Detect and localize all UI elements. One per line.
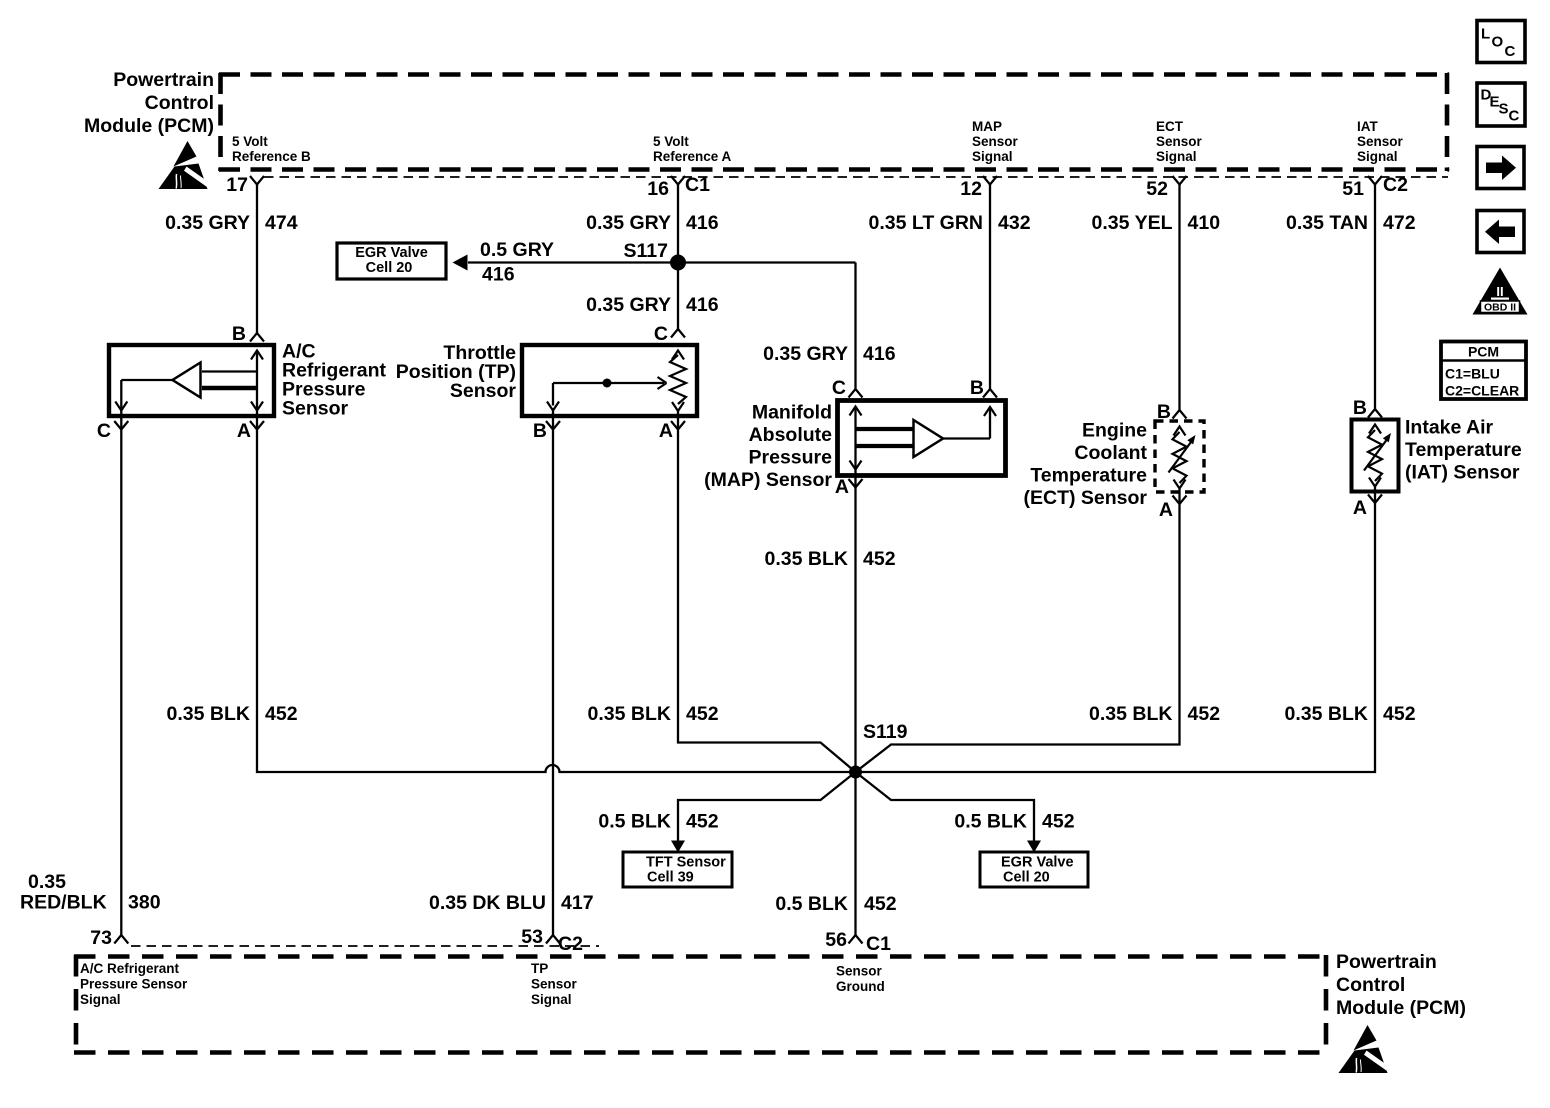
- svg-text:0.35 YEL: 0.35 YEL: [1092, 212, 1173, 234]
- svg-text:C2=CLEAR: C2=CLEAR: [1445, 383, 1519, 399]
- svg-text:C1=BLU: C1=BLU: [1445, 366, 1500, 382]
- svg-text:452: 452: [686, 811, 719, 833]
- svg-text:452: 452: [864, 893, 897, 915]
- svg-text:0.35 BLK: 0.35 BLK: [167, 703, 250, 725]
- svg-text:0.5 BLK: 0.5 BLK: [775, 893, 848, 915]
- svg-text:452: 452: [265, 703, 298, 725]
- svg-text:S: S: [1499, 101, 1509, 118]
- svg-text:0.5 GRY: 0.5 GRY: [480, 239, 554, 261]
- svg-text:Cell 20: Cell 20: [366, 260, 413, 276]
- svg-text:B: B: [533, 420, 547, 442]
- svg-text:0.35 GRY: 0.35 GRY: [763, 343, 848, 365]
- svg-text:Module (PCM): Module (PCM): [84, 115, 214, 137]
- svg-text:O: O: [1492, 34, 1504, 51]
- svg-text:A: A: [835, 476, 849, 498]
- svg-text:Engine: Engine: [1082, 420, 1147, 442]
- svg-text:Intake Air: Intake Air: [1405, 417, 1494, 439]
- svg-text:EGR Valve: EGR Valve: [1001, 855, 1074, 871]
- svg-text:B: B: [1157, 401, 1171, 423]
- svg-text:417: 417: [561, 892, 594, 914]
- svg-text:472: 472: [1383, 212, 1416, 234]
- svg-text:A: A: [1159, 499, 1173, 521]
- svg-text:C: C: [97, 420, 111, 442]
- svg-text:Control: Control: [1336, 974, 1405, 996]
- svg-text:Temperature: Temperature: [1405, 439, 1522, 461]
- svg-text:B: B: [232, 323, 246, 345]
- svg-text:452: 452: [863, 548, 896, 570]
- svg-text:C: C: [654, 323, 668, 345]
- svg-text:Pressure: Pressure: [749, 447, 833, 469]
- svg-text:A: A: [1353, 497, 1367, 519]
- svg-text:Module (PCM): Module (PCM): [1336, 997, 1466, 1019]
- svg-text:Cell 20: Cell 20: [1003, 870, 1050, 886]
- svg-text:Sensor: Sensor: [450, 380, 517, 402]
- svg-text:Sensor: Sensor: [836, 964, 883, 979]
- svg-text:(ECT) Sensor: (ECT) Sensor: [1023, 487, 1147, 509]
- svg-text:C2: C2: [558, 933, 583, 955]
- svg-text:416: 416: [482, 264, 515, 286]
- svg-text:ECT: ECT: [1156, 119, 1184, 134]
- svg-text:Pressure Sensor: Pressure Sensor: [80, 977, 188, 992]
- svg-text:MAP: MAP: [972, 119, 1002, 134]
- svg-text:Sensor: Sensor: [282, 398, 349, 420]
- svg-text:5 Volt: 5 Volt: [653, 134, 689, 149]
- svg-text:0.35 DK BLU: 0.35 DK BLU: [429, 892, 546, 914]
- svg-text:0.35: 0.35: [28, 871, 66, 893]
- svg-text:12: 12: [960, 178, 982, 200]
- svg-text:Reference A: Reference A: [653, 149, 732, 164]
- svg-text:0.35 GRY: 0.35 GRY: [586, 294, 671, 316]
- svg-text:II: II: [1496, 284, 1503, 299]
- svg-text:Cell 39: Cell 39: [647, 870, 694, 886]
- svg-text:Absolute: Absolute: [749, 424, 833, 446]
- svg-text:A: A: [659, 420, 673, 442]
- svg-text:Control: Control: [145, 92, 214, 114]
- svg-text:Powertrain: Powertrain: [113, 69, 214, 91]
- svg-text:Reference B: Reference B: [232, 149, 311, 164]
- svg-text:RED/BLK: RED/BLK: [20, 892, 107, 914]
- svg-text:17: 17: [226, 174, 248, 196]
- svg-text:0.35 GRY: 0.35 GRY: [586, 212, 671, 234]
- svg-text:16: 16: [647, 178, 669, 200]
- svg-text:Signal: Signal: [1357, 149, 1398, 164]
- svg-text:Sensor: Sensor: [531, 977, 578, 992]
- svg-text:0.35 LT GRN: 0.35 LT GRN: [869, 212, 984, 234]
- svg-text:73: 73: [90, 927, 112, 949]
- svg-text:C1: C1: [685, 174, 710, 196]
- svg-text:452: 452: [1188, 703, 1221, 725]
- svg-text:52: 52: [1146, 178, 1168, 200]
- svg-text:Signal: Signal: [972, 149, 1013, 164]
- svg-text:C: C: [1509, 108, 1520, 125]
- svg-text:C: C: [1505, 43, 1516, 60]
- svg-text:C2: C2: [1383, 174, 1408, 196]
- svg-text:IAT: IAT: [1357, 119, 1378, 134]
- svg-text:51: 51: [1342, 178, 1364, 200]
- svg-text:(MAP) Sensor: (MAP) Sensor: [704, 469, 832, 491]
- svg-text:A/C Refrigerant: A/C Refrigerant: [80, 961, 180, 976]
- svg-text:0.5 BLK: 0.5 BLK: [954, 811, 1027, 833]
- svg-text:0.35 BLK: 0.35 BLK: [1285, 703, 1368, 725]
- svg-text:Coolant: Coolant: [1074, 442, 1147, 464]
- svg-text:S117: S117: [624, 240, 668, 262]
- svg-text:Powertrain: Powertrain: [1336, 951, 1437, 973]
- svg-text:C: C: [832, 377, 846, 399]
- svg-text:452: 452: [1383, 703, 1416, 725]
- svg-text:Sensor: Sensor: [1156, 134, 1203, 149]
- svg-text:Manifold: Manifold: [752, 402, 832, 424]
- svg-text:Signal: Signal: [1156, 149, 1197, 164]
- svg-text:B: B: [970, 377, 984, 399]
- svg-text:432: 432: [998, 212, 1031, 234]
- svg-text:474: 474: [265, 212, 298, 234]
- svg-text:Temperature: Temperature: [1030, 465, 1147, 487]
- svg-text:416: 416: [686, 294, 719, 316]
- svg-text:Signal: Signal: [80, 992, 121, 1007]
- svg-text:S119: S119: [863, 721, 908, 743]
- svg-text:TFT Sensor: TFT Sensor: [646, 855, 726, 871]
- svg-text:452: 452: [1042, 811, 1075, 833]
- svg-text:416: 416: [863, 343, 896, 365]
- svg-text:Sensor: Sensor: [972, 134, 1019, 149]
- svg-text:53: 53: [521, 926, 543, 948]
- svg-text:OBD II: OBD II: [1484, 302, 1516, 314]
- svg-text:0.35 TAN: 0.35 TAN: [1286, 212, 1368, 234]
- svg-text:452: 452: [686, 703, 719, 725]
- svg-text:0.35 GRY: 0.35 GRY: [165, 212, 250, 234]
- svg-text:TP: TP: [531, 961, 548, 976]
- svg-text:0.35 BLK: 0.35 BLK: [1089, 703, 1172, 725]
- svg-text:56: 56: [825, 929, 847, 951]
- svg-text:EGR Valve: EGR Valve: [355, 245, 428, 261]
- svg-text:Sensor: Sensor: [1357, 134, 1404, 149]
- svg-text:Signal: Signal: [531, 992, 572, 1007]
- svg-text:Ground: Ground: [836, 979, 885, 994]
- svg-text:380: 380: [128, 892, 161, 914]
- svg-text:C1: C1: [866, 933, 891, 955]
- svg-text:0.35 BLK: 0.35 BLK: [765, 548, 848, 570]
- svg-text:PCM: PCM: [1468, 344, 1499, 360]
- svg-text:L: L: [1481, 26, 1490, 43]
- svg-text:A: A: [237, 420, 251, 442]
- svg-text:0.35 BLK: 0.35 BLK: [588, 703, 671, 725]
- svg-text:(IAT) Sensor: (IAT) Sensor: [1405, 462, 1520, 484]
- svg-text:416: 416: [686, 212, 719, 234]
- svg-text:5 Volt: 5 Volt: [232, 134, 268, 149]
- svg-text:410: 410: [1188, 212, 1221, 234]
- svg-text:0.5 BLK: 0.5 BLK: [598, 811, 671, 833]
- svg-text:B: B: [1353, 397, 1367, 419]
